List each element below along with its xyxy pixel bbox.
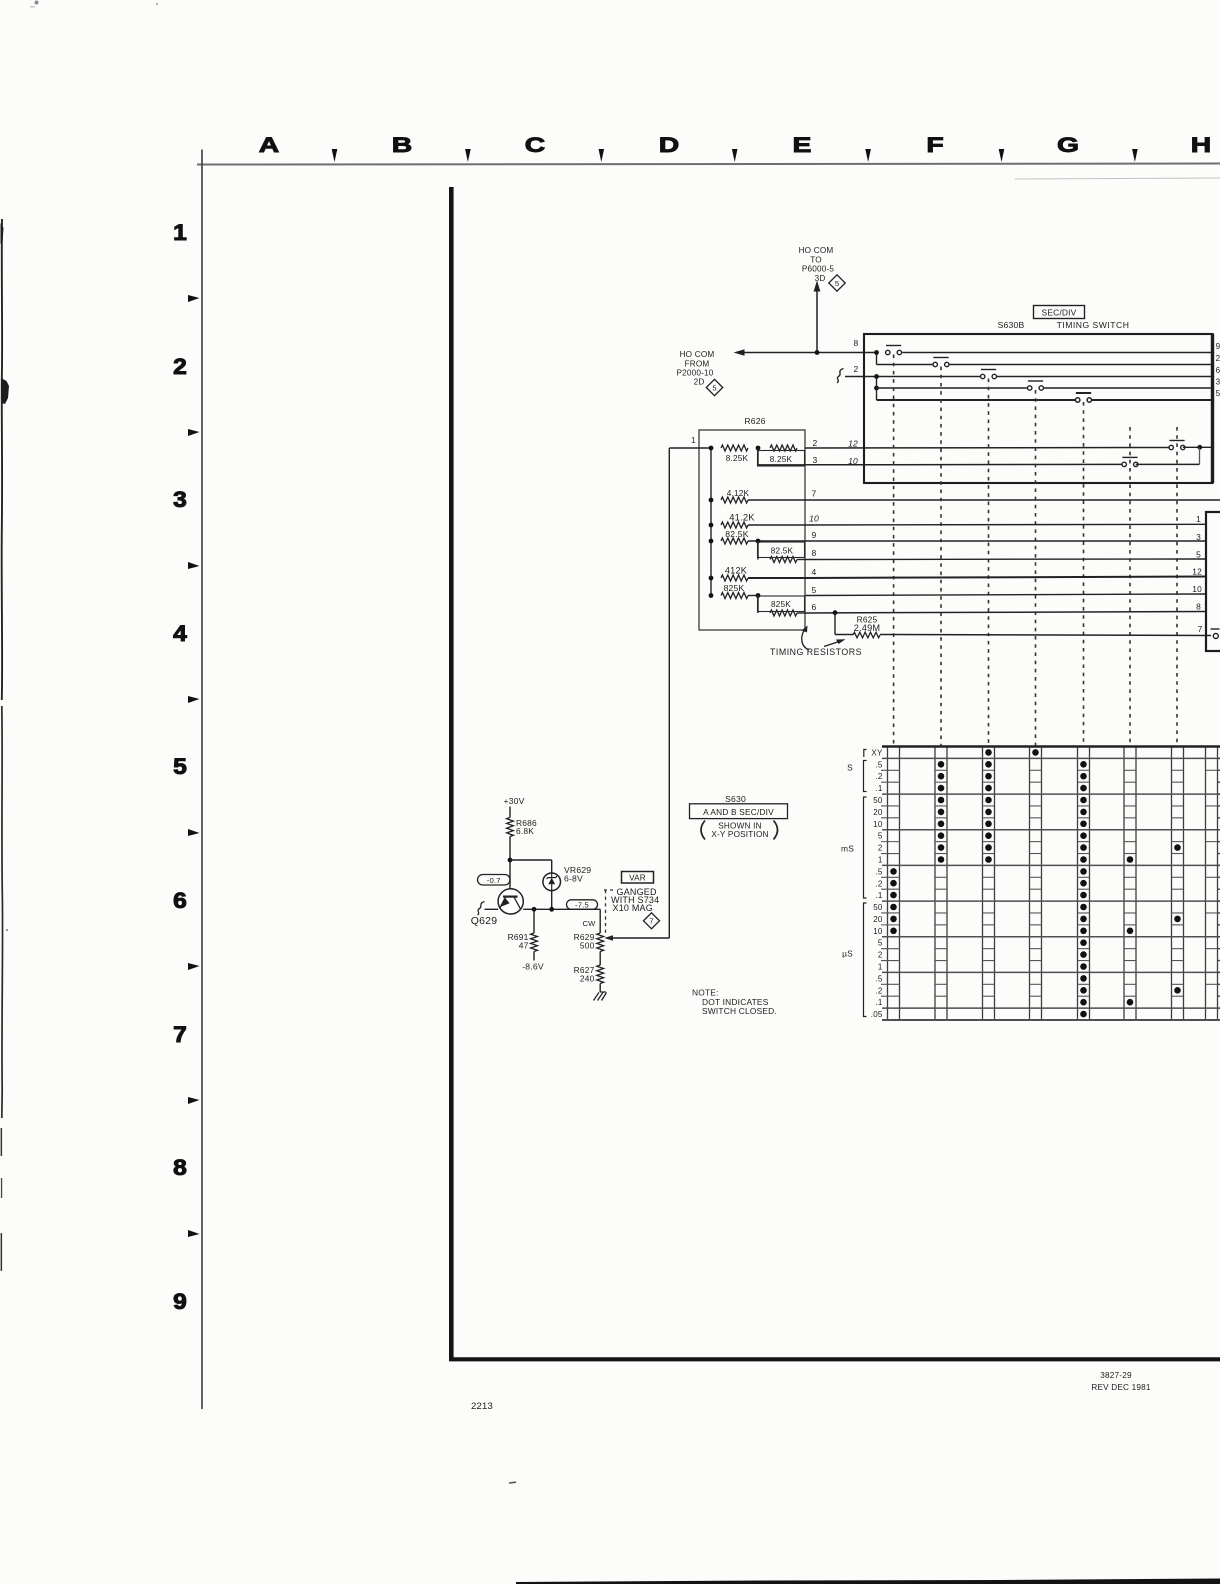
faint scan line top right: [1015, 178, 1220, 179]
svg-text:1: 1: [878, 855, 883, 864]
border ruler vertical line: [201, 150, 203, 1410]
svg-text:G: G: [1057, 133, 1079, 157]
svg-text:9: 9: [812, 530, 817, 540]
svg-text:6: 6: [173, 888, 187, 912]
off-sheet squiggle row3: [837, 369, 844, 383]
svg-text:F: F: [926, 133, 943, 157]
bracket S group: [864, 761, 867, 792]
svg-text:8: 8: [173, 1155, 187, 1179]
wire pin1 entry: [669, 447, 711, 449]
svg-text:5: 5: [1196, 550, 1201, 560]
svg-text:5: 5: [878, 832, 883, 841]
svg-text:CW: CW: [582, 919, 596, 928]
connector box right: [1206, 512, 1220, 651]
svg-text:.05: .05: [871, 1010, 883, 1019]
svg-text:S: S: [847, 763, 853, 773]
contact switch row5: [1076, 392, 1091, 394]
svg-text:Q629: Q629: [471, 915, 498, 927]
border ruler horizontal line: [197, 164, 1220, 165]
svg-text:8: 8: [812, 548, 817, 558]
svg-text:6: 6: [812, 602, 817, 612]
resistor R686 6.8K: [507, 818, 514, 837]
svg-text:TIMING RESISTORS: TIMING RESISTORS: [770, 647, 862, 657]
svg-text:B: B: [392, 133, 412, 157]
svg-text:XY: XY: [871, 748, 883, 757]
wire pin9 row to connector pin3: [805, 540, 1206, 542]
transistor Q629: [498, 889, 523, 914]
svg-text:8: 8: [854, 338, 859, 348]
svg-text:FROM: FROM: [685, 360, 710, 369]
svg-text:825K: 825K: [724, 583, 745, 593]
svg-text:6-8V: 6-8V: [564, 874, 583, 884]
wire rowB tap: [757, 448, 759, 465]
stray pen dash: [509, 1481, 516, 1484]
svg-text:2: 2: [1216, 354, 1220, 363]
resistor R626A 8.25K first: [721, 445, 748, 451]
svg-text:1: 1: [1196, 514, 1201, 524]
svg-text:mS: mS: [841, 844, 854, 854]
label A AND B SEC/DIV boxed: [690, 804, 788, 819]
chassis ground: [594, 992, 607, 1001]
wire pin7 row: [805, 499, 1220, 501]
svg-text:8.25K: 8.25K: [726, 454, 749, 463]
svg-text:µS: µS: [842, 949, 853, 959]
wire row5 wafer: [877, 399, 1078, 401]
junction dot collector node: [508, 858, 513, 863]
wire collector node to VR629: [510, 859, 552, 861]
svg-text:.5: .5: [875, 760, 882, 769]
junction dot VR629 node: [549, 907, 554, 912]
contact switch row4: [1028, 380, 1043, 382]
bracket mS group: [864, 797, 867, 898]
wire HO COM vertical with up arrow: [816, 291, 818, 353]
contact switch pin2 row: [1169, 440, 1184, 442]
wire bus row3-row5: [876, 377, 878, 401]
zener diode VR629: [543, 873, 561, 891]
svg-text:X10 MAG: X10 MAG: [613, 903, 653, 913]
bracket uS group: [864, 903, 867, 1017]
svg-text:82.5K: 82.5K: [771, 547, 794, 556]
timing switch box S630B: [864, 334, 1213, 483]
wire pin4 row to connector pin12: [805, 577, 1206, 579]
svg-text:5: 5: [835, 279, 839, 288]
svg-text:5: 5: [878, 939, 883, 948]
svg-text:TIMING SWITCH: TIMING SWITCH: [1057, 320, 1130, 330]
svg-text:NOTE:: NOTE:: [692, 988, 719, 998]
svg-text:R626: R626: [744, 416, 765, 426]
svg-text:2: 2: [878, 844, 883, 853]
svg-text:50: 50: [873, 903, 883, 912]
svg-text:2: 2: [173, 354, 187, 378]
label SEC/DIV boxed: [1034, 306, 1085, 319]
wire +30V to R686: [509, 807, 511, 818]
svg-text:S630: S630: [725, 794, 746, 804]
wire base entry: [485, 908, 499, 910]
voltage oval -7.5: [567, 900, 598, 910]
svg-text:.2: .2: [875, 879, 882, 888]
svg-text:47: 47: [519, 941, 529, 951]
svg-text:HO COM: HO COM: [799, 246, 834, 255]
bracket XY: [864, 750, 867, 758]
svg-text:6: 6: [1216, 366, 1220, 375]
wire stub pin2 contact to junction: [1183, 446, 1212, 448]
svg-text:3: 3: [1196, 532, 1201, 542]
wire row pin2 to contact: [805, 447, 1171, 450]
svg-text:2: 2: [813, 438, 818, 448]
svg-text:7: 7: [812, 489, 817, 499]
svg-text:.2: .2: [875, 986, 882, 995]
wire HO COM horizontal with left arrow: [737, 352, 877, 354]
wire rowI tap: [757, 596, 759, 614]
junction dot HO COM node: [815, 350, 820, 355]
label VAR boxed: [622, 872, 654, 884]
svg-text:E: E: [793, 133, 812, 157]
svg-text:1: 1: [878, 962, 883, 971]
svg-text:6.8K: 6.8K: [516, 826, 534, 836]
svg-text:3: 3: [173, 487, 187, 511]
svg-text:240: 240: [580, 974, 595, 984]
contact switch row1: [886, 345, 901, 347]
schematic border bottom edge: [449, 1357, 1220, 1361]
svg-text:S630B: S630B: [998, 320, 1025, 330]
junction dot pin2 row: [1197, 445, 1202, 450]
svg-text:825K: 825K: [771, 600, 791, 609]
junction dot row H: [709, 593, 714, 598]
svg-text:SWITCH CLOSED.: SWITCH CLOSED.: [702, 1006, 777, 1016]
resistor pack R626 box: [699, 430, 805, 630]
svg-text:.1: .1: [875, 784, 882, 793]
resistor R626A 8.25K second boxed: [770, 445, 797, 451]
svg-text:P6000-5: P6000-5: [802, 265, 835, 274]
contact switch row2: [933, 357, 948, 359]
svg-text:-8.6V: -8.6V: [522, 962, 544, 972]
svg-text:1: 1: [691, 436, 696, 445]
wire bus row1-row2: [876, 353, 878, 365]
resistor R691 47: [533, 909, 535, 933]
off-sheet squiggle Q629 base: [478, 902, 485, 916]
wire pin5 row to connector pin10: [805, 594, 1206, 596]
svg-text:1: 1: [173, 220, 187, 244]
chart row tick lines: [881, 769, 900, 771]
mechanical diamond 7: [644, 913, 660, 929]
wire pin6 row to connector pin8: [805, 612, 1206, 614]
scan artifact left edge strip: [1, 219, 3, 700]
wire VR629 to emitter line: [551, 890, 553, 909]
wire emitter row: [523, 908, 600, 910]
svg-text:.5: .5: [875, 867, 882, 876]
wire pin10 row to connector pin1: [805, 523, 1206, 526]
svg-text:.2: .2: [875, 772, 882, 781]
pot wiper arrow: [608, 937, 669, 939]
svg-text:10: 10: [873, 927, 883, 936]
wire R625 drop: [834, 613, 836, 635]
wire junction vertical: [1199, 448, 1201, 465]
wire rowF tap: [757, 541, 759, 560]
wire pin8 row to connector pin5: [805, 558, 1206, 561]
potentiometer R629 500: [599, 909, 601, 933]
off-sheet diamond 5 (from P2000-10): [706, 379, 722, 395]
svg-text:2D: 2D: [694, 378, 705, 387]
scan specks top: [35, 1, 39, 5]
svg-text:.1: .1: [875, 891, 882, 900]
svg-text:.1: .1: [875, 998, 882, 1007]
junction dot row D: [709, 523, 714, 528]
svg-text:+30V: +30V: [503, 796, 524, 806]
voltage oval -0.7: [478, 875, 511, 886]
bus vertical R626: [710, 448, 712, 596]
resistor R626 82.5K second boxed: [770, 557, 797, 563]
wire row1 wafer 8: [902, 352, 1212, 354]
svg-text:A: A: [259, 133, 279, 157]
off-sheet diamond 5 (to P6000-5): [829, 275, 845, 291]
svg-text:-7.5: -7.5: [575, 900, 589, 909]
svg-text:3: 3: [1216, 378, 1220, 387]
svg-text:20: 20: [873, 915, 883, 924]
svg-text:10: 10: [848, 456, 858, 466]
wire row3 wafer 2: [845, 376, 983, 378]
wire pin3 contact to junction: [1136, 463, 1200, 465]
svg-text:4: 4: [812, 567, 817, 577]
svg-text:P2000-10: P2000-10: [676, 369, 713, 378]
dashed cam shaft lines: [893, 355, 895, 747]
svg-text:9: 9: [1216, 342, 1220, 351]
svg-text:-0.7: -0.7: [487, 876, 501, 885]
junction dot row A: [709, 446, 714, 451]
contact switch row3: [981, 369, 996, 371]
connector contact pin7: [1211, 628, 1220, 630]
resistor R626 825K second boxed: [770, 610, 797, 616]
schematic border left edge: [449, 187, 454, 1361]
svg-text:A AND B SEC/DIV: A AND B SEC/DIV: [703, 807, 774, 817]
contact switch pin3 row: [1122, 456, 1137, 458]
mechanical dashed link: [604, 889, 616, 891]
svg-text:HO COM: HO COM: [680, 350, 715, 359]
junction dot row C: [709, 498, 714, 503]
svg-text:TO: TO: [810, 256, 822, 265]
switch box right edge thick: [1211, 334, 1214, 483]
svg-text:12: 12: [1192, 567, 1202, 577]
wire R686 to Q629: [509, 837, 511, 897]
row tick marks: [188, 295, 200, 302]
callout arrow to R625: [824, 641, 842, 647]
svg-text:500: 500: [580, 941, 595, 951]
svg-text:7: 7: [173, 1022, 187, 1046]
svg-text:3827-29: 3827-29: [1100, 1371, 1132, 1380]
chart cam column strips: [887, 747, 889, 1021]
svg-text:10: 10: [809, 514, 819, 524]
svg-text:2: 2: [878, 951, 883, 960]
svg-text:SEC/DIV: SEC/DIV: [1042, 308, 1077, 318]
svg-text:5: 5: [812, 585, 817, 595]
svg-text:2: 2: [854, 364, 859, 374]
svg-text:20: 20: [873, 808, 883, 817]
junction dot R625 tap: [833, 610, 838, 615]
wire R626 pin1 vertical: [668, 448, 670, 938]
scan artifact bottom edge strip: [516, 1579, 1220, 1584]
svg-text:REV DEC 1981: REV DEC 1981: [1091, 1383, 1151, 1392]
svg-text:5: 5: [712, 383, 716, 392]
resistor R627 240: [599, 952, 601, 966]
junction dot row G: [709, 576, 714, 581]
svg-text:H: H: [1191, 133, 1211, 157]
svg-text:10: 10: [873, 820, 883, 829]
caption shown in X-Y position: [701, 821, 705, 840]
svg-text:3: 3: [813, 455, 818, 465]
svg-text:9: 9: [173, 1289, 187, 1313]
junction dots rows bus: [874, 350, 879, 355]
wire row4 wafer: [877, 387, 1030, 389]
svg-text:X-Y POSITION: X-Y POSITION: [711, 830, 768, 839]
callout arrow to R626 box: [802, 628, 809, 650]
wire row pin3 to contact: [805, 463, 1124, 465]
svg-text:C: C: [525, 133, 545, 157]
svg-text:50: 50: [873, 796, 883, 805]
svg-text:VAR: VAR: [629, 874, 646, 883]
chart group boundary lines: [882, 745, 1220, 747]
svg-text:3D: 3D: [815, 274, 826, 283]
svg-text:5: 5: [173, 754, 187, 778]
svg-text:7: 7: [1198, 624, 1203, 634]
svg-text:2213: 2213: [471, 1401, 493, 1412]
column tick marks: [332, 149, 338, 162]
svg-text:412K: 412K: [725, 566, 748, 576]
svg-text:82.5K: 82.5K: [725, 529, 749, 539]
wire row2 wafer: [877, 364, 936, 366]
svg-text:4: 4: [173, 621, 187, 645]
svg-text:D: D: [659, 133, 679, 157]
svg-text:8.25K: 8.25K: [770, 455, 793, 464]
junction dot row E: [709, 539, 714, 544]
junction dot R691 node: [532, 907, 537, 912]
svg-text:12: 12: [848, 439, 858, 449]
svg-text:5: 5: [1216, 389, 1220, 398]
svg-text:.5: .5: [875, 974, 882, 983]
svg-text:8: 8: [1196, 602, 1201, 612]
chart closure dots: [890, 868, 897, 875]
svg-text:7: 7: [649, 917, 653, 926]
svg-text:10: 10: [1192, 584, 1202, 594]
chart right edge strip ticks: [1206, 769, 1218, 771]
